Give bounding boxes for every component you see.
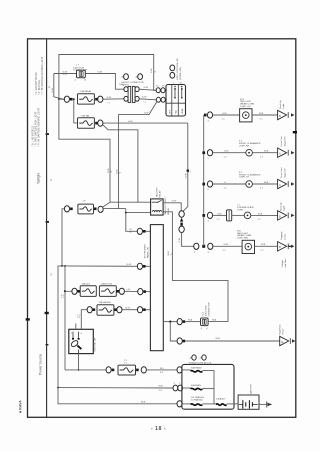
wire: body ground run to triangle — [185, 340, 280, 342]
svg-text:Signal LH: Signal LH — [284, 168, 286, 178]
svg-text:W-B: W-B — [188, 320, 193, 322]
pin mark row291 right — [117, 290, 120, 293]
svg-text:LIGHT LH): LIGHT LH) — [240, 106, 251, 108]
ground arrow row5 at frame — [288, 243, 294, 249]
bulb R11 boxed — [242, 240, 254, 253]
instrument panel J/B label — [145, 243, 150, 258]
fusible link 40A MAIN — [191, 384, 203, 390]
ground point label row3 — [280, 167, 286, 178]
section ref text below row5 — [281, 258, 287, 268]
svg-text:JUNCTION: JUNCTION — [206, 305, 208, 316]
svg-text:LIGHT CONTROL SW: LIGHT CONTROL SW — [177, 57, 179, 80]
wire: mid fuse diagonal up to feed corner — [102, 202, 110, 207]
svg-text:L-R: L-R — [127, 289, 131, 291]
fuse 10A ECU-B — [99, 286, 116, 297]
fusible link 100A ALT — [216, 398, 227, 406]
connector circle row5 right — [208, 243, 213, 249]
bulb F3 — [246, 181, 253, 188]
node dot row3 — [202, 183, 205, 186]
label fusible link AM1 — [124, 360, 128, 364]
ground triangle row3 — [278, 179, 287, 188]
node dot row291/x65 — [64, 290, 66, 292]
sidebar section tick divider — [45, 312, 49, 314]
connector circle mid fuse right — [98, 206, 103, 212]
fuse 10A GAUGE — [97, 305, 114, 316]
label R11 TAILLIGHT REAR RH — [237, 230, 252, 239]
bulb F4 — [246, 149, 253, 156]
pin numbers above switch pins — [156, 86, 165, 88]
svg-text:W-B: W-B — [261, 244, 266, 246]
svg-text:10A GAUGE: 10A GAUGE — [99, 301, 112, 304]
svg-text:INSTRUMENT: INSTRUMENT — [145, 243, 147, 258]
short connector pin upper-left — [124, 87, 128, 92]
fuse 7.5A mid (panel feed) — [78, 204, 94, 214]
ground arrow row1 at frame — [288, 112, 294, 118]
connector circle J/B pin4 — [137, 307, 142, 313]
svg-text:TAILLIGHT: TAILLIGHT — [155, 186, 158, 198]
connector circle tail fuse right — [98, 120, 103, 126]
fuse 15A CIG — [80, 286, 96, 297]
fuse 7.5A TAIL — [78, 118, 95, 128]
wire: node to relay coil left pin — [126, 212, 151, 214]
label SHORT CONNECTOR (LHD) — [121, 82, 144, 86]
light control switch pin circles row1 — [156, 88, 165, 93]
fusible link 80A MAIN — [191, 396, 205, 405]
sidebar divider line — [46, 39, 48, 418]
ground point label row2 — [280, 136, 286, 147]
connector circle row310 left — [87, 307, 92, 313]
svg-text:IE: IE — [281, 341, 284, 344]
ground triangle IE — [280, 336, 289, 345]
wire: top loop horizontal to light control switch — [59, 55, 156, 100]
label F4 FRONT CLEARANCE RH — [239, 141, 261, 148]
wire: row4 bulb to ground — [251, 214, 278, 216]
pin mark ground out — [183, 320, 186, 323]
svg-text:PANEL J/B: PANEL J/B — [147, 247, 150, 258]
svg-text:30A HEAD: 30A HEAD — [191, 367, 202, 370]
wire: battery minus row404 — [58, 388, 177, 404]
label pin IG1 riser — [77, 314, 81, 318]
wire: row3 to bulb — [213, 183, 246, 185]
right frame page tick — [293, 131, 297, 133]
inline connector pair circle lower — [179, 226, 184, 232]
wire: ground branch down to body ground run — [170, 322, 177, 341]
svg-text:Power Source: Power Source — [39, 354, 43, 375]
instrument panel J/B box — [150, 225, 163, 351]
node: row5 junction circle left — [194, 243, 199, 249]
pin mark J/B pin2 — [143, 265, 146, 268]
svg-text:Comp.: Comp. — [284, 233, 286, 240]
ground arrow IE at frame — [290, 338, 295, 344]
short connector body — [128, 86, 135, 102]
wire: node down to J/B pin — [126, 209, 137, 232]
wire: AM feed vertical x65 — [64, 266, 66, 370]
sidebar small tick y228 — [46, 221, 49, 223]
relay R1 taillight control relay — [151, 199, 164, 215]
wire: row3 bulb to ground — [252, 183, 277, 185]
fusible link block ref circle 1 — [189, 355, 196, 360]
svg-text:* 6 : LHD MODELS: * 6 : LHD MODELS — [32, 126, 35, 147]
wire: tail fuse main feed to right drop — [103, 122, 188, 124]
svg-text:Panel: Panel — [283, 328, 285, 334]
wire label G-W left of J7 — [63, 72, 68, 76]
wire: row1 to bulb — [213, 114, 240, 116]
svg-text:CONNECTOR: CONNECTOR — [73, 69, 87, 71]
svg-text:G: G — [224, 182, 226, 184]
connector circle row3 — [207, 181, 212, 187]
wire label G-W panel out — [107, 97, 112, 105]
wire: row310 to J/B pin4 — [122, 309, 137, 311]
pin mark row370 right — [136, 369, 139, 372]
pin stub AM1 — [75, 323, 77, 329]
node: tail fuse branch dot — [73, 98, 75, 100]
light control switch block — [166, 85, 186, 117]
pin mark row370 left — [112, 369, 115, 372]
wire: panel fuse to short connector — [103, 98, 124, 100]
block internal wire row388 right — [202, 388, 214, 390]
svg-text:W-B: W-B — [159, 386, 164, 388]
wire label G-W on loop vertical — [151, 68, 157, 73]
svg-text:A: A — [279, 152, 281, 156]
svg-text:LIGHT: LIGHT — [237, 210, 244, 212]
svg-text:BATTERY: BATTERY — [250, 384, 253, 394]
pin mark J/B pin1 — [143, 230, 146, 233]
ground arrow row3 at frame — [288, 181, 294, 187]
inline connector junction dot — [180, 223, 182, 226]
block internal wire row388 — [183, 387, 191, 389]
sidebar note block 1 — [35, 56, 44, 95]
connector circle ground out — [177, 319, 182, 325]
block internal wire to battery — [227, 403, 239, 405]
ground triangle row5 — [278, 242, 287, 251]
ground point label row4 — [281, 202, 286, 211]
connector circle J/B pin3 — [138, 289, 143, 295]
pin mark panel right — [95, 98, 98, 101]
svg-text:(COMB. SW): (COMB. SW) — [180, 67, 182, 80]
connector circle row310 right — [117, 307, 122, 313]
wire label G-W on V1 — [52, 87, 54, 92]
ground arrow row4 at frame — [288, 213, 294, 219]
wire: row291 from x65 — [64, 290, 72, 291]
connector circle row1 — [207, 112, 212, 118]
wire: left feed to mid fuse row — [62, 209, 64, 266]
label TAILLIGHT RELAY above — [155, 186, 161, 198]
block internal wire row404 — [182, 403, 190, 405]
node dot row5 bus junction — [202, 245, 205, 248]
pin mark row310 left — [93, 308, 96, 311]
pin mark body ground run — [183, 340, 186, 343]
junction connector J14 — [201, 318, 209, 326]
wire: row2 bulb to ground — [252, 152, 277, 154]
comb switch ref circle lower — [170, 72, 175, 78]
wire label W-B row388 — [159, 386, 164, 392]
connector circle row370 right — [141, 367, 146, 373]
wire: J7 to short connector — [85, 74, 123, 90]
ground point label IE — [278, 324, 284, 335]
wire: row370 feed — [65, 369, 106, 371]
svg-text:* 3 : EXCEPT W/ DRL: * 3 : EXCEPT W/ DRL — [35, 71, 38, 95]
label TAILLIGHT CONTROL RELAY right — [164, 197, 170, 215]
sidebar small tick y345 — [46, 344, 49, 345]
connector circle mid fuse left — [64, 206, 69, 212]
sidebar section tick left — [26, 318, 30, 320]
label J14 JUNCTION CONNECTOR — [202, 302, 210, 316]
switch contact arrow col3 — [181, 86, 183, 99]
svg-text:and Illum.: and Illum. — [285, 258, 287, 268]
svg-text:W-B: W-B — [258, 213, 263, 215]
svg-text:Back-Up: Back-Up — [280, 99, 282, 108]
svg-text:Front Turn: Front Turn — [280, 136, 283, 147]
label IGNITION SW — [94, 337, 96, 352]
connector circle J/B pin2 — [137, 263, 142, 269]
fusible link block box — [182, 364, 234, 409]
node: panel fuse feed junction — [58, 98, 60, 100]
svg-text:* 1 : W/ DAYTIME RUNNING LIGHT: * 1 : W/ DAYTIME RUNNING LIGHT — [41, 56, 44, 95]
wire: tail fuse branch to relay contact — [103, 125, 151, 202]
connector circle row370 left — [106, 367, 111, 373]
light control switch pin circles row2 — [156, 97, 165, 102]
svg-text:7.5A TAIL: 7.5A TAIL — [81, 114, 91, 117]
wire: row4 to connector — [213, 214, 227, 216]
svg-text:Taillight: Taillight — [281, 260, 284, 268]
svg-text:B: B — [279, 214, 281, 218]
connector circle body ground run — [177, 338, 182, 344]
wire: row5 to bulb — [213, 245, 242, 247]
svg-text:Light: Light — [282, 103, 285, 108]
svg-text:A: A — [279, 183, 281, 187]
block pin circle row404 — [177, 401, 182, 407]
pin mark J/B pin4 — [143, 308, 146, 311]
wire label G-W on switch drop vertical — [116, 169, 121, 174]
pin numbers above switch block — [173, 82, 183, 84]
taillight feeder bus vertical — [203, 115, 205, 246]
svg-text:* 2 : W/O DRL: * 2 : W/O DRL — [38, 79, 41, 95]
label F3 FRONT CLEARANCE LH — [239, 172, 261, 179]
ignition switch SW1 — [69, 329, 94, 353]
wire: ignition IG1 riser — [81, 310, 87, 329]
inline connector on row4 — [227, 210, 232, 221]
svg-text:Taillight: Taillight — [37, 173, 41, 184]
label J7 JUNCTION CONNECTOR — [73, 64, 87, 71]
comb switch ref circle upper — [170, 65, 175, 71]
connector ref circle 5 — [121, 74, 129, 80]
pin mark mid fuse right — [94, 208, 97, 211]
node dot at relay coil branch — [125, 212, 127, 214]
ground triangle row1 — [278, 110, 287, 119]
svg-text:Light: Light — [283, 206, 286, 211]
node dot ground branch — [169, 321, 171, 323]
svg-text:LIGHT RH): LIGHT RH) — [237, 238, 248, 240]
svg-text:Front Turn: Front Turn — [280, 167, 283, 178]
bulb R12 boxed — [240, 109, 252, 122]
wire label G-W tail out — [128, 121, 133, 123]
label pin 18 1E near J/B pin — [129, 229, 132, 233]
wire label G-W right of J7 — [98, 72, 103, 74]
svg-text:2.0 MAIN(D): 2.0 MAIN(D) — [191, 398, 203, 401]
node dot row370 switch joint — [78, 369, 80, 371]
wire: J/B pin4 stub — [146, 309, 151, 311]
svg-text:HEAD: HEAD — [181, 108, 184, 114]
connector circle panel fuse right — [98, 96, 103, 102]
connector circle row291 right — [119, 288, 124, 294]
pin mark panel left — [70, 98, 73, 101]
block internal wire row404 out — [202, 403, 216, 405]
svg-text:RELAY: RELAY — [159, 190, 162, 198]
wire: V2 down to lower feed — [59, 99, 110, 202]
wire: short connector lower out to switch — [139, 99, 156, 100]
wire: J/B pin3 stub — [146, 291, 150, 293]
pin mark mid fuse left — [70, 208, 73, 211]
fuse 7.5A PANEL — [78, 94, 95, 104]
wire: stub to PANEL fuse circle — [59, 98, 64, 100]
svg-text:Back-Up: Back-Up — [281, 202, 283, 211]
svg-text:W-B: W-B — [264, 182, 269, 184]
svg-text:* 5 : W/O DAYTIME RUN. LIGHT: * 5 : W/O DAYTIME RUN. LIGHT — [34, 111, 37, 147]
wire label G-W above short connector — [119, 84, 124, 86]
ground triangle row4 — [278, 211, 287, 220]
J/B ground out pin wire — [163, 321, 177, 323]
wire: main left ground vertical — [57, 266, 59, 388]
wire: row1 bulb to ground — [252, 114, 278, 116]
svg-text:RELAY: RELAY — [167, 207, 170, 215]
svg-text:B: B — [279, 245, 281, 249]
label R12 TAILLIGHT REAR LH — [240, 99, 255, 108]
wire: switch tail output down to relay coil — [119, 102, 157, 209]
wire: J/B pin1 stub — [146, 230, 151, 232]
node dot row2 — [202, 151, 205, 154]
label LIGHT CONTROL SW — [177, 57, 182, 80]
svg-text:- 18 -: - 18 - — [151, 426, 166, 432]
node dot row266/x65 — [64, 265, 66, 267]
svg-text:10A ECU-B: 10A ECU-B — [101, 282, 113, 285]
wire label W-B near drop — [179, 237, 181, 242]
svg-text:W-B: W-B — [216, 338, 221, 340]
svg-text:LIGHT LH: LIGHT LH — [239, 177, 249, 179]
sidebar note block 2 — [32, 107, 41, 146]
fusible link 30A HEAD — [191, 367, 203, 372]
label L1 LICENSE PLATE LIGHT — [237, 205, 254, 212]
ground point label row5 — [281, 231, 286, 240]
pin numbers row388 — [174, 383, 181, 385]
wire: J14 to relay coil drop — [208, 321, 228, 323]
svg-text:■ RAV4: ■ RAV4 — [19, 401, 23, 414]
pin mark row310 right — [114, 308, 117, 311]
block internal wire row370 — [182, 369, 190, 371]
svg-text:Right Kick: Right Kick — [278, 324, 281, 335]
svg-text:* 4 : W/ DAYTIME RUNNING LIGHT: * 4 : W/ DAYTIME RUNNING LIGHT — [37, 107, 40, 146]
svg-text:1 1J: 1 1J — [63, 74, 67, 76]
svg-text:100A ALT: 100A ALT — [216, 398, 226, 401]
ground arrow row2 at frame — [288, 150, 294, 156]
svg-text:W-B: W-B — [264, 151, 269, 153]
svg-text:Signal RH: Signal RH — [284, 136, 286, 146]
pin mark row291 left — [77, 290, 80, 293]
switch contact arrow col2 — [174, 86, 176, 99]
wire: relay contact out to inline connector — [163, 203, 181, 211]
wire: ground out to J14 — [185, 321, 200, 323]
wire: vertical to TAIL fuse — [74, 99, 78, 123]
wire: battery to ground — [259, 403, 267, 405]
svg-text:Luggage: Luggage — [281, 231, 283, 240]
node dot row266/x62 — [61, 265, 63, 267]
node mark row1 — [204, 114, 207, 117]
fusible link AM1 — [118, 365, 136, 375]
svg-text:40A MAIN: 40A MAIN — [191, 384, 201, 387]
block internal wire row370 right — [202, 371, 214, 404]
wire: J/B pin2 stub — [146, 265, 151, 267]
svg-text:W-B: W-B — [168, 251, 170, 256]
inline connector mark on drop — [187, 170, 192, 174]
block pin circle pair row388 — [173, 385, 183, 391]
label pin row291 left — [61, 295, 65, 299]
wire: row5 bulb to ground — [255, 245, 278, 247]
svg-text:B: B — [279, 114, 281, 118]
wire: junction connector feed V1 — [54, 74, 64, 100]
connector circle J/B pin1 — [137, 228, 142, 234]
wire: ground bus down bottom row — [58, 387, 173, 389]
svg-text:IGNITION SW: IGNITION SW — [94, 337, 96, 352]
wire: connector to bulb row4 — [232, 214, 245, 216]
wire: row2 to bulb — [213, 152, 246, 154]
svg-text:LIGHT RH: LIGHT RH — [239, 145, 250, 147]
bulb L1 — [244, 212, 251, 219]
short connector pin lower-left — [124, 96, 128, 101]
svg-text:15A CIG: 15A CIG — [82, 282, 91, 285]
wire: right drop to inline connector — [183, 123, 188, 211]
wire: relay coil out drop to ground run — [163, 212, 228, 322]
wire: row266 feed to J/B pin2 — [58, 265, 137, 267]
battery symbol — [239, 398, 258, 408]
connector circle row291 left — [72, 288, 77, 294]
junction connector J7 — [77, 70, 86, 78]
battery box — [238, 395, 259, 409]
wire label G-W on x110 vertical — [108, 168, 113, 173]
wire: row291 to J/B pin3 — [124, 290, 137, 292]
svg-text:OFF: OFF — [169, 109, 171, 114]
short connector pin upper-right — [135, 87, 139, 92]
wire: corner across to relay drop — [110, 201, 138, 203]
wire: short connector upper out to switch — [139, 89, 156, 90]
wire: mid fuse right jog to relay coil node — [103, 208, 126, 210]
wire: inline connector down to row5 feed — [182, 232, 194, 246]
node dot row4 — [202, 214, 205, 217]
pin ref texts under row wire labels — [194, 119, 264, 254]
svg-text:W-B: W-B — [141, 402, 146, 404]
node dot x58 row388 — [57, 387, 59, 389]
connector circle panel fuse left — [64, 96, 69, 102]
wire: junction connector row left — [54, 73, 77, 75]
connector ref circle 6 — [135, 74, 143, 80]
wire: ignition AM1 down to row370 — [78, 354, 80, 370]
svg-text:TAIL: TAIL — [175, 109, 178, 114]
inline connector pair circle upper — [179, 211, 184, 217]
wire label G-W on drop — [186, 172, 188, 177]
border frame — [28, 39, 296, 418]
pin mark J/B pin3 — [143, 290, 146, 293]
pin mark tail right — [95, 122, 98, 125]
svg-text:7.5A PANEL: 7.5A PANEL — [80, 90, 93, 93]
battery ground symbol — [267, 401, 272, 407]
inline connector male arrow — [180, 218, 183, 222]
sidebar small tick y134 — [46, 133, 49, 135]
wire label W-L row370 — [160, 368, 165, 374]
svg-text:W-B: W-B — [259, 113, 264, 115]
ground point label row1 — [280, 99, 285, 108]
fusible link block ref circle 2 — [199, 355, 206, 360]
block pin circle row370 — [177, 367, 182, 373]
short connector pin lower-right — [135, 96, 139, 101]
svg-text:CONNECTOR: CONNECTOR — [209, 302, 211, 316]
